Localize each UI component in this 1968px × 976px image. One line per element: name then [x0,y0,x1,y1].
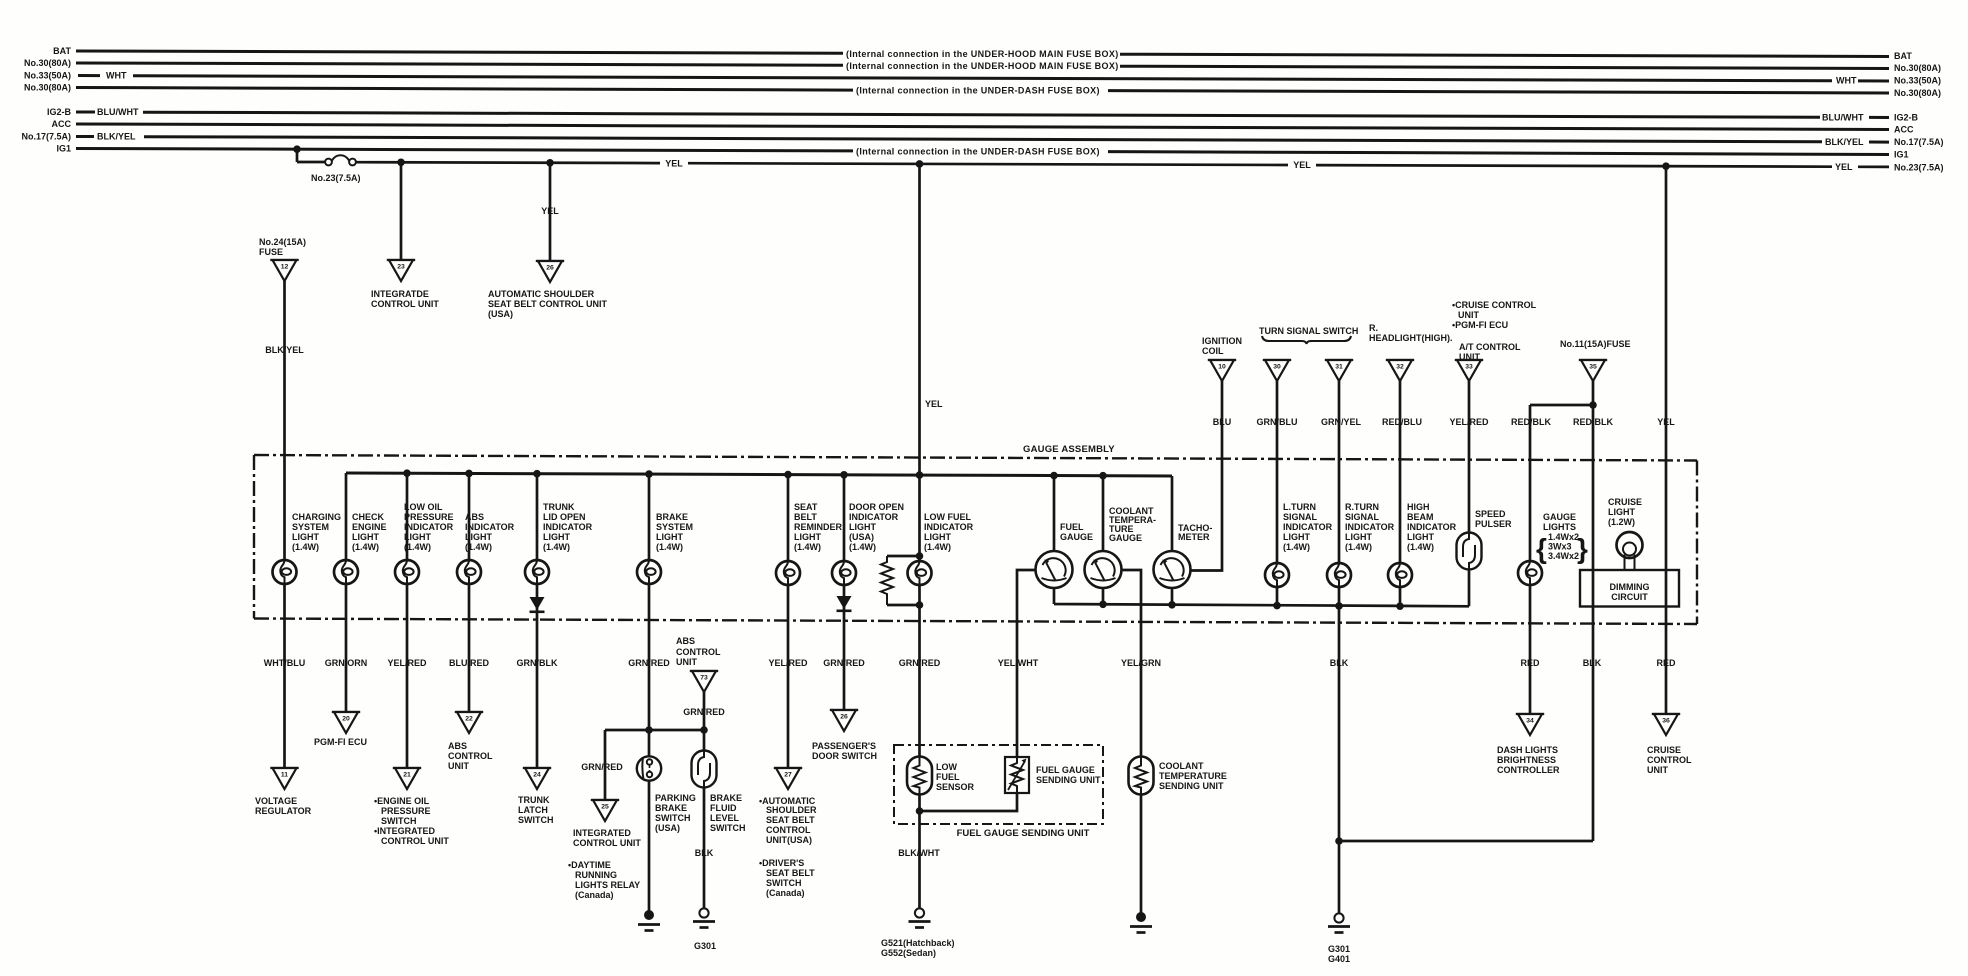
svg-text:R.: R. [1369,323,1378,333]
svg-text:CONTROL UNIT: CONTROL UNIT [371,299,439,309]
speed pulser [1457,533,1482,570]
svg-text:GRN/YEL: GRN/YEL [1321,417,1362,427]
wire BLK dimming to ground junction [1339,840,1593,843]
svg-text:BLK: BLK [1330,658,1349,668]
svg-text:34: 34 [1526,718,1534,725]
svg-text:24: 24 [533,772,541,779]
svg-text:RED/BLK: RED/BLK [1511,417,1551,427]
svg-text:UNIT: UNIT [1647,765,1668,775]
svg-text:TRUNK: TRUNK [543,502,575,512]
svg-text:SEAT BELT: SEAT BELT [766,868,815,878]
svg-text:LID OPEN: LID OPEN [543,512,586,522]
svg-text:WHT/BLU: WHT/BLU [264,658,306,668]
svg-text:IG1: IG1 [1894,150,1909,160]
connector triangle 11 voltage regulator [270,768,298,789]
svg-text:RED/BLU: RED/BLU [1382,417,1422,427]
cruise light lamp [1617,532,1643,570]
wire low oil column [406,473,409,768]
wire color labels under box [264,658,1676,668]
svg-text:DOOR SWITCH: DOOR SWITCH [812,751,877,761]
svg-text:GAUGE: GAUGE [1060,532,1093,542]
svg-text:11: 11 [281,772,288,779]
svg-text:•CRUISE CONTROL: •CRUISE CONTROL [1452,300,1537,310]
node gauges bottom junctions [1099,601,1404,611]
svg-text:SIGNAL: SIGNAL [1345,512,1380,522]
connector triangle 26 [536,261,564,282]
svg-text:INDICATOR: INDICATOR [924,522,974,532]
svg-text:COOLANT: COOLANT [1159,761,1204,771]
svg-text:IGNITION: IGNITION [1202,336,1242,346]
fuel gauge sending unit component [1005,757,1029,793]
svg-text:BLU/RED: BLU/RED [449,658,489,668]
svg-text:YEL: YEL [665,159,683,169]
svg-text:ABS: ABS [448,741,467,751]
connector triangle 33 [1455,360,1483,381]
svg-text:HIGH: HIGH [1407,502,1430,512]
svg-text:RUNNING: RUNNING [575,870,617,880]
svg-text:ACC: ACC [52,119,72,129]
svg-text:REGULATOR: REGULATOR [255,806,312,816]
lamp seat belt reminder [776,561,800,585]
svg-text:No.30(80A): No.30(80A) [1894,88,1941,98]
svg-text:LOW OIL: LOW OIL [404,502,443,512]
svg-text:GRN/RED: GRN/RED [899,658,941,668]
svg-text:GAUGE: GAUGE [1109,533,1142,543]
svg-text:BLK: BLK [695,848,714,858]
svg-text:•ENGINE OIL: •ENGINE OIL [374,796,430,806]
lamp abs indicator [457,560,481,584]
wire YEL No.23 fuse line [297,149,1889,167]
dimming circuit box [1580,570,1679,607]
svg-text:BLK/WHT: BLK/WHT [898,848,940,858]
wire RED/BLK fuse 35 to dimming [1592,381,1595,841]
svg-text:(1.4W): (1.4W) [1345,542,1372,552]
svg-text:LIGHT: LIGHT [465,532,492,542]
svg-text:No.24(15A): No.24(15A) [259,237,306,247]
svg-text:BAT: BAT [53,46,71,56]
right inline wire color labels [1822,76,1864,172]
svg-text:(Canada): (Canada) [766,888,805,898]
svg-text:BLK/YEL: BLK/YEL [265,345,304,355]
svg-text:YEL/WHT: YEL/WHT [998,658,1039,668]
svg-text:LIGHTS RELAY: LIGHTS RELAY [575,880,640,890]
svg-text:REMINDER: REMINDER [794,522,843,532]
svg-text:CONTROL: CONTROL [448,751,493,761]
connector triangle 23 [387,260,415,281]
svg-text:CRUISE: CRUISE [1608,497,1642,507]
connector triangle 32 [1386,360,1414,381]
svg-text:CONTROL: CONTROL [1647,755,1692,765]
svg-text:No.23(7.5A): No.23(7.5A) [311,173,361,183]
svg-text:SEAT BELT CONTROL UNIT: SEAT BELT CONTROL UNIT [488,299,607,309]
svg-text:YEL: YEL [541,206,559,216]
svg-text:21: 21 [403,772,411,779]
resistor parallel to low fuel lamp [881,552,923,609]
wire coolant bottom [1102,587,1105,604]
lamp high beam [1388,563,1412,587]
svg-text:BLK/YEL: BLK/YEL [97,132,136,142]
svg-text:YEL/RED: YEL/RED [387,658,427,668]
fuse No.23(7.5A) [325,155,356,165]
wire ACC bus [76,124,1889,130]
svg-text:1.4Wx2: 1.4Wx2 [1548,532,1579,542]
connector triangle 31 [1325,360,1353,381]
svg-text:25: 25 [601,804,609,811]
svg-text:LIGHT: LIGHT [543,532,570,542]
connector triangle 36 cruise control [1652,714,1680,735]
lamp check engine [334,560,358,584]
connector triangle 27 seat belt [774,768,802,789]
left inline wire color labels [97,71,139,142]
svg-text:BRAKE: BRAKE [655,803,687,813]
svg-text:CHECK: CHECK [352,512,385,522]
wire RED/BLU high beam [1399,381,1402,606]
ground coolant [1130,912,1152,933]
svg-text:YEL/RED: YEL/RED [768,658,808,668]
svg-text:GRN/BLK: GRN/BLK [517,658,558,668]
svg-text:BLK: BLK [1583,658,1602,668]
svg-text:YEL/RED: YEL/RED [1449,417,1489,427]
svg-text:(USA): (USA) [488,309,513,319]
internal connection notes [846,49,1119,157]
svg-text:22: 22 [465,716,473,723]
svg-text:BRIGHTNESS: BRIGHTNESS [1497,755,1556,765]
svg-text:36: 36 [1662,718,1670,725]
svg-text:CONTROL UNIT: CONTROL UNIT [573,838,641,848]
wire YEL/RED speed pulser [1468,381,1471,606]
svg-text:YEL: YEL [1293,160,1311,170]
wire brake system branch node [605,692,704,911]
connector triangle 34 dash lights [1516,714,1544,735]
low fuel sensor [907,757,932,795]
wire trunk column [536,474,539,768]
in-box lamp labels [292,497,1642,561]
svg-text:GRN/RED: GRN/RED [823,658,865,668]
wire No.30(80A) bus [76,63,1889,69]
svg-text:FUEL GAUGE: FUEL GAUGE [1036,765,1095,775]
svg-text:27: 27 [784,772,792,779]
svg-text:PULSER: PULSER [1475,519,1512,529]
svg-text:IG2-B: IG2-B [1894,113,1919,123]
svg-text:LIGHT: LIGHT [352,532,379,542]
svg-text:FUEL: FUEL [936,772,960,782]
mid wire color labels [1213,417,1675,427]
svg-text:26: 26 [546,265,554,272]
svg-text:INDICATOR: INDICATOR [1345,522,1395,532]
ground parking brake [638,910,660,931]
connector triangle 25 integrated [591,800,619,821]
wire fuel gauge bottom + gauges bottom bus [1054,587,1469,606]
svg-text:LIGHT: LIGHT [794,532,821,542]
coolant temperature sending unit [1129,757,1154,795]
diode door open [837,596,852,611]
lamp door open indicator [832,561,856,585]
svg-text:PARKING: PARKING [655,793,696,803]
svg-text:G521(Hatchback): G521(Hatchback) [881,938,955,948]
wire check engine column [345,473,348,712]
svg-text:HEADLIGHT(HIGH).: HEADLIGHT(HIGH). [1369,333,1453,343]
svg-text:BLU: BLU [1213,417,1232,427]
svg-text:R.TURN: R.TURN [1345,502,1379,512]
svg-text:(USA): (USA) [849,532,874,542]
svg-text:DOOR OPEN: DOOR OPEN [849,502,904,512]
svg-text:UNIT: UNIT [448,761,469,771]
svg-text:G301: G301 [694,941,716,951]
svg-text:L.TURN: L.TURN [1283,502,1316,512]
svg-text:INDICATOR: INDICATOR [543,522,593,532]
svg-text:A/T CONTROL: A/T CONTROL [1459,342,1521,352]
svg-text:(1.4W): (1.4W) [794,542,821,552]
gauge coolant temperature [1085,551,1122,588]
connector triangle 12 No.24 fuse [270,260,298,281]
ground G301 G401 [1328,913,1350,932]
svg-text:SEAT: SEAT [794,502,818,512]
svg-text:DASH LIGHTS: DASH LIGHTS [1497,745,1558,755]
svg-text:WHT: WHT [106,71,127,81]
wire GRN/YEL turn R / BLK to ground [1338,381,1341,913]
brake fluid level switch [692,751,717,788]
node bus junctions [403,469,1107,479]
svg-text:CRUISE: CRUISE [1647,745,1681,755]
svg-text:(1.4W): (1.4W) [543,542,570,552]
gauge assembly dashed box [254,455,1697,624]
svg-text:COIL: COIL [1202,346,1224,356]
svg-text:LEVEL: LEVEL [710,813,740,823]
svg-text:INTEGRATED: INTEGRATED [573,828,631,838]
svg-text:(Internal connection in the UN: (Internal connection in the UNDER-HOOD M… [846,49,1119,59]
svg-text:(1.4W): (1.4W) [1407,542,1434,552]
wire coolant gauge top [1102,476,1105,552]
svg-text:{: { [1536,533,1547,564]
wire fuel gauge top [1053,476,1056,552]
svg-text:3Wx3: 3Wx3 [1548,542,1572,552]
svg-text:BRAKE: BRAKE [656,512,688,522]
svg-text:INDICATOR: INDICATOR [465,522,515,532]
svg-text:IG1: IG1 [56,144,71,154]
gauge tachometer [1154,551,1191,588]
connector triangle 30 [1263,360,1291,381]
wire BLK/YEL from fuse 12 to charging lamp [283,281,286,768]
svg-text:LIGHT: LIGHT [292,532,319,542]
braces for gauge lights values [1536,533,1588,564]
svg-text:3.4Wx2: 3.4Wx2 [1548,551,1579,561]
svg-text:CONTROL UNIT: CONTROL UNIT [381,836,449,846]
svg-text:SWITCH: SWITCH [766,878,802,888]
svg-text:UNIT: UNIT [1459,352,1480,362]
svg-text:LIGHT: LIGHT [656,532,683,542]
wire YEL/GRN from coolant gauge [1122,570,1141,913]
svg-text:RED: RED [1656,658,1676,668]
node IG1 junction [293,145,301,153]
svg-text:No.17(7.5A): No.17(7.5A) [1894,137,1944,147]
svg-text:(1.2W): (1.2W) [1608,517,1635,527]
svg-text:SPEED: SPEED [1475,509,1506,519]
svg-text:No.11(15A)FUSE: No.11(15A)FUSE [1560,339,1631,349]
svg-text:TURN SIGNAL SWITCH: TURN SIGNAL SWITCH [1259,326,1358,336]
svg-text:•DAYTIME: •DAYTIME [568,860,611,870]
svg-text:INDICATOR: INDICATOR [404,522,454,532]
svg-text:GRN/ORN: GRN/ORN [325,658,368,668]
ground G521 low fuel [909,908,931,927]
svg-text:YEL: YEL [1835,162,1853,172]
svg-text:SHOULDER: SHOULDER [766,805,817,815]
YEL labels on fuse line [665,159,1311,171]
wire IG1 bus [76,149,1889,155]
wire to integrated control unit 23 [400,162,403,260]
svg-text:(1.4W): (1.4W) [924,542,951,552]
wire seat belt column [787,475,790,768]
svg-text:10: 10 [1218,364,1226,371]
svg-text:CONTROL: CONTROL [676,647,721,657]
svg-text:RED: RED [1520,658,1540,668]
svg-text:GRN/RED: GRN/RED [628,658,670,668]
right bus labels [1894,51,1944,173]
diode trunk [530,597,545,612]
svg-text:30: 30 [1273,364,1281,371]
wire low fuel column down to ground [918,475,921,908]
svg-text:PGM-FI ECU: PGM-FI ECU [314,737,367,747]
wire YEL/WHT into fuel gauge [920,570,1037,811]
wire tacho bottom [1171,587,1174,605]
wire No.17(7.5A) BLK/YEL bus [76,137,1889,143]
svg-text:GAUGE ASSEMBLY: GAUGE ASSEMBLY [1023,444,1115,455]
svg-text:(1.4W): (1.4W) [1283,542,1310,552]
wire IG2-B BLU/WHT bus [76,112,1889,118]
wire door open column [843,475,846,710]
svg-text:LIGHT: LIGHT [924,532,951,542]
svg-text:LOW: LOW [936,762,957,772]
svg-text:UNIT: UNIT [676,657,697,667]
svg-text:GAUGE: GAUGE [1543,512,1576,522]
svg-text:(1.4W): (1.4W) [849,542,876,552]
lamp gauge lights [1518,561,1542,585]
svg-text:(1.4W): (1.4W) [656,542,683,552]
svg-text:LIGHTS: LIGHTS [1543,522,1576,532]
lamp charging system [273,560,297,584]
svg-text:No.33(50A): No.33(50A) [24,71,71,81]
wire BAT bus [76,51,1889,57]
wire GRN/BLU turn L [1276,381,1279,606]
wire abs column [468,473,471,712]
svg-text:LIGHT: LIGHT [404,532,431,542]
svg-text:PASSENGER'S: PASSENGER'S [812,741,876,751]
lamp brake system [637,560,661,584]
svg-text:CONTROLLER: CONTROLLER [1497,765,1560,775]
wire YEL to dimming circuit [1665,166,1668,714]
svg-text:LATCH: LATCH [518,805,548,815]
svg-text:YEL: YEL [1657,417,1675,427]
svg-text:}: } [1577,533,1588,564]
svg-text:SENDING UNIT: SENDING UNIT [1159,781,1224,791]
svg-text:GRN/BLU: GRN/BLU [1257,417,1298,427]
wire RED/BLK branch to gauge lights [1530,405,1593,714]
svg-text:BEAM: BEAM [1407,512,1434,522]
svg-text:IG2-B: IG2-B [47,107,72,117]
svg-text:BLU/WHT: BLU/WHT [97,107,139,117]
parking brake switch [637,756,661,780]
svg-text:VOLTAGE: VOLTAGE [255,796,297,806]
connector triangle 26 passenger door [830,710,858,731]
svg-text:ABS: ABS [676,636,695,646]
svg-text:BLK/YEL: BLK/YEL [1825,137,1864,147]
wire brake system column [648,474,651,730]
svg-text:DIMMING: DIMMING [1610,582,1650,592]
svg-text:UNIT: UNIT [1458,310,1479,320]
svg-text:SYSTEM: SYSTEM [656,522,693,532]
svg-text:LIGHT: LIGHT [1407,532,1434,542]
svg-text:32: 32 [1396,364,1404,371]
wire YEL to seat belt control unit 26 [549,163,552,261]
svg-text:SWITCH: SWITCH [381,816,417,826]
svg-text:FUEL GAUGE SENDING UNIT: FUEL GAUGE SENDING UNIT [957,828,1090,839]
connector triangle 20 pgm-fi [332,712,360,733]
svg-text:(Internal connection in the UN: (Internal connection in the UNDER-DASH F… [856,85,1100,95]
svg-text:TRUNK: TRUNK [518,795,550,805]
svg-text:(1.4W): (1.4W) [465,542,492,552]
lamp R turn [1327,563,1351,587]
connector triangle 22 abs [455,712,483,733]
svg-text:SIGNAL: SIGNAL [1283,512,1318,522]
svg-text:UNIT(USA): UNIT(USA) [766,835,812,845]
wire No.33(50A) WHT bus [78,76,1889,82]
svg-text:26: 26 [840,714,848,721]
svg-text:INDICATOR: INDICATOR [849,512,899,522]
lamp low fuel indicator [908,561,932,585]
svg-text:FUSE: FUSE [259,247,283,257]
left bus labels [21,46,71,154]
connector triangle 21 engine oil [393,768,421,789]
svg-text:CHARGING: CHARGING [292,512,341,522]
svg-text:No.33(50A): No.33(50A) [1894,76,1941,86]
lamp low oil pressure [395,560,419,584]
svg-text:(Canada): (Canada) [575,890,614,900]
svg-text:73: 73 [700,675,708,682]
svg-text:BELT: BELT [794,512,817,522]
svg-text:GRN/RED: GRN/RED [683,707,725,717]
svg-text:SENDING UNIT: SENDING UNIT [1036,775,1101,785]
svg-text:ABS: ABS [465,512,484,522]
svg-text:LIGHT: LIGHT [1608,507,1635,517]
svg-text:23: 23 [397,264,405,271]
svg-text:LIGHT: LIGHT [1283,532,1310,542]
svg-text:(USA): (USA) [655,823,680,833]
svg-text:SWITCH: SWITCH [655,813,691,823]
fuel gauge sending unit dashed box [894,745,1103,824]
svg-text:(1.4W): (1.4W) [404,542,431,552]
svg-text:LIGHT: LIGHT [849,522,876,532]
svg-text:TEMPERATURE: TEMPERATURE [1159,771,1227,781]
svg-text:No.17(7.5A): No.17(7.5A) [21,132,71,142]
svg-text:(Internal connection in the UN: (Internal connection in the UNDER-DASH F… [856,146,1100,156]
svg-text:12: 12 [281,264,289,271]
wire BLU ignition coil to tachometer [1191,381,1223,571]
svg-text:•DRIVER'S: •DRIVER'S [759,858,804,868]
svg-text:No.30(80A): No.30(80A) [24,83,71,93]
svg-text:FLUID: FLUID [710,803,737,813]
svg-text:(1.4W): (1.4W) [292,542,319,552]
svg-text:BLU/WHT: BLU/WHT [1822,113,1864,123]
svg-text:INDICATOR: INDICATOR [1407,522,1457,532]
connector triangle 73 abs [690,671,718,692]
svg-text:(Internal connection in the UN: (Internal connection in the UNDER-HOOD M… [846,61,1119,71]
svg-text:SYSTEM: SYSTEM [292,522,329,532]
svg-text:METER: METER [1178,532,1210,542]
svg-text:G401: G401 [1328,954,1350,964]
svg-text:•PGM-FI ECU: •PGM-FI ECU [1452,320,1508,330]
svg-text:LOW FUEL: LOW FUEL [924,512,971,522]
svg-text:CONTROL: CONTROL [766,825,811,835]
svg-text:SWITCH: SWITCH [518,815,554,825]
